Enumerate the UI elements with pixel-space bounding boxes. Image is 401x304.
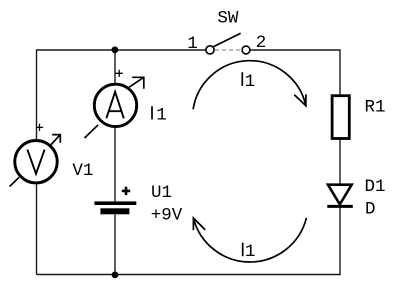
svg-text:+9V: +9V xyxy=(151,206,183,226)
wire resistor-to-diode segment xyxy=(339,140,341,185)
voltmeter adjustment arrow shaft upper with head xyxy=(49,135,60,147)
label U1 xyxy=(151,183,172,203)
wire top-right segment with corner down to resistor xyxy=(251,50,341,94)
label I1 bottom xyxy=(243,242,256,262)
label pin 2 xyxy=(256,33,267,53)
svg-text:1: 1 xyxy=(187,34,198,54)
ammeter U-A body xyxy=(94,84,136,126)
wire junction-to-ammeter segment xyxy=(114,50,116,85)
wire ammeter-to-battery segment xyxy=(114,127,116,202)
svg-text:1: 1 xyxy=(245,242,256,262)
label R1 xyxy=(365,97,386,117)
svg-text:U1: U1 xyxy=(151,183,172,203)
wire battery-to-bottom segment xyxy=(114,214,116,275)
svg-text:R1: R1 xyxy=(365,97,386,117)
wire diode-to-bottom segment xyxy=(339,206,341,275)
svg-text:D1: D1 xyxy=(365,177,386,197)
label pin 1 xyxy=(187,34,198,54)
label I1 ammeter xyxy=(152,105,167,125)
voltmeter V glyph xyxy=(27,150,44,174)
switch SW dashed open-position line xyxy=(215,49,241,51)
current arrow I1 bottom arc xyxy=(193,218,306,262)
wire left lower segment xyxy=(36,184,38,275)
svg-text:SW: SW xyxy=(217,9,239,29)
voltmeter polarity plus xyxy=(36,124,43,131)
ammeter A glyph xyxy=(106,92,123,119)
wire top-left segment xyxy=(37,49,206,51)
label D xyxy=(365,200,376,220)
wire left upper segment xyxy=(36,49,38,140)
diode D1 triangle xyxy=(328,185,352,205)
label SW xyxy=(217,9,239,29)
diode D1 cathode bar xyxy=(327,205,353,208)
ammeter adjustment arrow shaft lower xyxy=(85,125,99,138)
current arrow I1 bottom arc head xyxy=(193,218,205,230)
label +9V xyxy=(151,206,183,226)
ammeter polarity plus xyxy=(116,70,123,77)
switch SW lever xyxy=(214,33,241,46)
voltmeter V1 body xyxy=(15,141,57,183)
current arrow I1 top arc xyxy=(193,61,306,110)
wire bottom segment xyxy=(37,274,341,276)
label I1 top xyxy=(242,72,255,92)
switch SW pin 1 contact xyxy=(206,46,214,54)
node bottom junction xyxy=(112,272,119,279)
switch SW pin 2 contact xyxy=(242,46,250,54)
current arrow I1 top arc head xyxy=(294,94,306,106)
svg-text:1: 1 xyxy=(245,72,256,92)
svg-text:2: 2 xyxy=(256,33,267,53)
battery U1 positive plate xyxy=(94,201,136,205)
ammeter adjustment arrow shaft upper with head xyxy=(128,77,144,89)
svg-text:V1: V1 xyxy=(72,161,93,181)
voltmeter adjustment arrow shaft lower xyxy=(10,177,19,186)
label D1 xyxy=(365,177,386,197)
resistor R1 xyxy=(332,96,349,139)
battery U1 negative plate xyxy=(100,208,129,214)
svg-text:D: D xyxy=(365,200,376,220)
label V1 xyxy=(72,161,93,181)
battery polarity plus xyxy=(122,187,130,195)
svg-text:1: 1 xyxy=(156,105,167,125)
node top junction xyxy=(112,46,119,53)
